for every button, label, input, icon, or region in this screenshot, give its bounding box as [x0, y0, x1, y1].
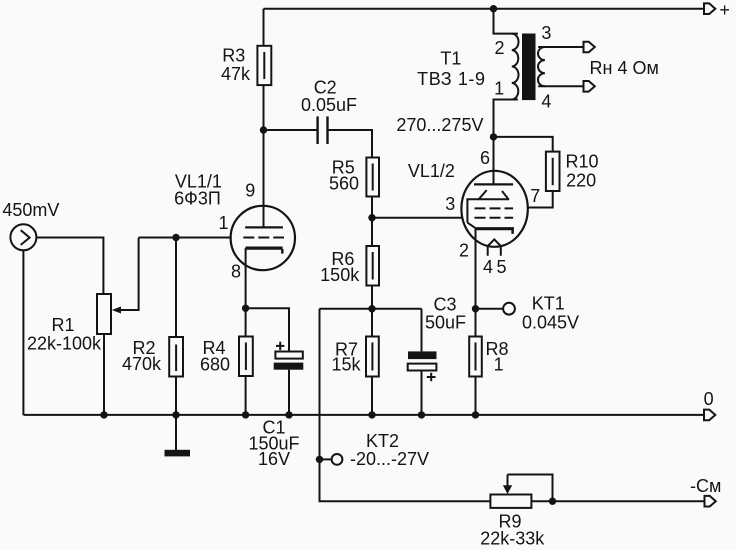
svg-text:15k: 15k [331, 355, 361, 375]
svg-text:0: 0 [704, 389, 714, 409]
svg-text:680: 680 [200, 355, 230, 375]
svg-text:4: 4 [483, 257, 493, 277]
svg-text:Rн 4 Ом: Rн 4 Ом [590, 58, 659, 78]
svg-text:2: 2 [494, 38, 504, 58]
svg-text:R1: R1 [51, 315, 74, 335]
svg-text:22k-33k: 22k-33k [480, 528, 545, 548]
svg-text:270...275V: 270...275V [396, 115, 483, 135]
svg-text:560: 560 [329, 174, 359, 194]
svg-text:3: 3 [541, 23, 551, 43]
svg-text:1: 1 [218, 213, 228, 233]
svg-text:16V: 16V [258, 449, 290, 469]
svg-text:8: 8 [231, 262, 241, 282]
svg-text:1: 1 [494, 79, 504, 99]
svg-text:0.045V: 0.045V [522, 313, 579, 333]
svg-text:9: 9 [245, 181, 255, 201]
svg-text:ТВЗ 1-9: ТВЗ 1-9 [417, 69, 486, 89]
svg-text:-20...-27V: -20...-27V [350, 449, 429, 469]
svg-text:7: 7 [530, 186, 540, 206]
svg-text:R10: R10 [565, 151, 598, 171]
svg-text:-Cм: -Cм [690, 476, 721, 496]
svg-text:VL1/2: VL1/2 [408, 161, 455, 181]
svg-text:T1: T1 [440, 49, 461, 69]
svg-text:KT2: KT2 [366, 431, 399, 451]
svg-text:2: 2 [459, 240, 469, 260]
svg-text:5: 5 [496, 257, 506, 277]
svg-text:50uF: 50uF [425, 313, 466, 333]
svg-text:6: 6 [480, 148, 490, 168]
svg-text:47k: 47k [221, 64, 251, 84]
svg-text:6Ф3П: 6Ф3П [174, 189, 221, 209]
svg-text:4: 4 [541, 92, 551, 112]
svg-text:1: 1 [494, 355, 504, 375]
svg-text:150k: 150k [320, 265, 360, 285]
svg-text:22k-100k: 22k-100k [27, 333, 102, 353]
svg-text:3: 3 [445, 194, 455, 214]
svg-text:450mV: 450mV [2, 200, 59, 220]
svg-text:C3: C3 [433, 295, 456, 315]
svg-text:KT1: KT1 [532, 294, 565, 314]
svg-text:R3: R3 [222, 46, 245, 66]
svg-text:0.05uF: 0.05uF [301, 95, 357, 115]
svg-text:470k: 470k [122, 354, 162, 374]
svg-text:+: + [719, 0, 730, 20]
svg-text:220: 220 [566, 170, 596, 190]
